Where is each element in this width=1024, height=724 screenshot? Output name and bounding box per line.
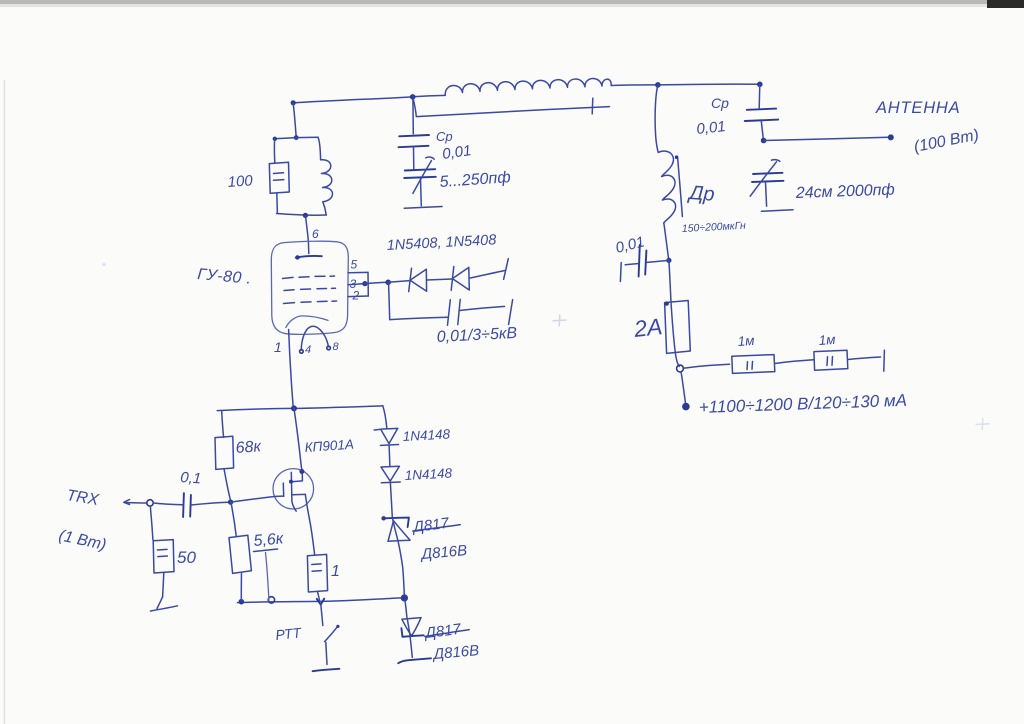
wire to antenna terminal xyxy=(764,137,889,140)
resistor R 100 body xyxy=(269,162,289,193)
wire varcap down xyxy=(420,179,423,206)
variable capacitor arrow xyxy=(413,157,434,193)
wire top-left horizontal xyxy=(293,97,413,103)
terminal bar snubber xyxy=(509,300,513,325)
capacitor Cp2 top plate xyxy=(747,109,776,110)
svg-text:5,6к: 5,6к xyxy=(253,530,286,550)
capacitor snubber right plate xyxy=(458,299,460,324)
terminal bar zener bottom xyxy=(398,658,431,663)
svg-text:Др: Др xyxy=(687,182,716,206)
wire to choke xyxy=(655,85,658,152)
wire snubber branch down xyxy=(389,283,390,320)
svg-text:Cр: Cр xyxy=(436,129,453,144)
node Cp top xyxy=(757,82,763,88)
strike line D817 lower xyxy=(425,630,469,637)
wire 68k to rail xyxy=(222,411,224,438)
PTT ground bar xyxy=(313,669,340,671)
wire R1M2 to terminal xyxy=(848,357,881,360)
fuse F1 body xyxy=(665,301,691,354)
wire Cp2 to antenna node xyxy=(761,121,763,140)
wire 50 to ground xyxy=(163,573,164,597)
wire D2 to terminal xyxy=(469,271,504,279)
diode D1 body xyxy=(410,269,427,291)
svg-text:68к: 68к xyxy=(235,438,263,457)
inductor L1 loops xyxy=(321,160,333,202)
wire cathode down xyxy=(289,330,294,409)
diode D3 cathode bar xyxy=(380,444,398,447)
dark scanner corner mark top-right xyxy=(987,0,1024,8)
wire junction to coil xyxy=(413,95,446,96)
resistor R 100 inner marks xyxy=(274,173,284,180)
node choke bottom xyxy=(666,258,671,263)
svg-text:4: 4 xyxy=(305,344,311,356)
wire down to suppressor block xyxy=(293,103,296,137)
node suppressor top-left xyxy=(273,137,277,141)
inductor L1 bottom lead xyxy=(323,202,326,215)
PTT switch lever xyxy=(325,626,338,641)
svg-text:24см 2000пф: 24см 2000пф xyxy=(795,182,896,202)
node fuse top xyxy=(665,301,669,305)
node grid box xyxy=(362,281,367,286)
fuse through wire xyxy=(669,260,679,366)
zener Z1 cathode bar with hook xyxy=(383,518,409,527)
svg-text:100: 100 xyxy=(227,172,254,191)
variable capacitor bottom plate xyxy=(404,177,436,178)
faint scan artifact plus center xyxy=(553,315,567,327)
tube anode bar xyxy=(296,256,322,258)
faint speck left of tube xyxy=(103,263,106,266)
svg-text:5: 5 xyxy=(351,258,358,272)
wire 50 down xyxy=(150,506,153,540)
capacitor Cp1 bottom plate xyxy=(399,146,429,147)
capacitor 0,1 right plate xyxy=(189,495,192,517)
open node rail xyxy=(268,597,274,603)
coil tap line xyxy=(413,98,610,117)
mosfet drain hook xyxy=(292,471,303,482)
mosfet source lead xyxy=(305,494,309,518)
terminal bar after D2 xyxy=(504,259,509,280)
wire D1 to D2 xyxy=(427,279,452,280)
svg-text:Cр: Cр xyxy=(711,95,729,111)
antenna terminal dot xyxy=(888,134,894,140)
diode D2 1N5408 cathode bar xyxy=(451,267,454,291)
wire D3 to D4 xyxy=(388,446,391,467)
resistor R 50 body xyxy=(153,540,174,573)
svg-text:1: 1 xyxy=(274,339,282,355)
bottom rail xyxy=(238,598,405,603)
node antenna branch xyxy=(761,138,767,144)
resistor R 50 marks xyxy=(158,549,168,556)
diode D3 1N4148 body xyxy=(381,428,398,443)
wire suppressor bottom edge xyxy=(277,214,327,216)
node 5k6 bottom xyxy=(239,599,245,605)
antenna variable capacitor top plate xyxy=(753,173,783,174)
antenna variable capacitor bottom plate xyxy=(752,181,784,182)
input terminal xyxy=(124,500,130,505)
tube GU-80 envelope xyxy=(271,241,348,334)
wire PTT down xyxy=(321,605,323,626)
node zener Z1 bar blob xyxy=(381,516,385,520)
node rail cathode xyxy=(291,405,297,411)
svg-text:1N4148: 1N4148 xyxy=(404,466,453,483)
resistor R 5,6k body xyxy=(229,535,251,573)
top rail bottom section xyxy=(217,406,383,411)
svg-text:6: 6 xyxy=(312,227,319,241)
resistor R 100 left branch lead xyxy=(273,139,275,163)
node top-left junction xyxy=(291,100,296,105)
tube pin 8 xyxy=(327,346,331,350)
zener Z1 through wire xyxy=(392,518,404,595)
resistor R 1M second marks xyxy=(827,357,833,366)
open node input junction xyxy=(147,500,153,506)
antenna varcap arrow xyxy=(750,160,780,197)
mosfet channel bar xyxy=(291,472,296,511)
resistor R source marks xyxy=(312,564,322,571)
terminal bar bypass cap xyxy=(619,263,622,282)
tube grid dashes row 2 xyxy=(284,288,336,290)
wire R1M to R1M xyxy=(775,360,814,364)
grid pin box bottom line xyxy=(348,295,368,298)
diode D1 1N5408 cathode bar xyxy=(409,268,412,291)
ground input xyxy=(151,597,178,611)
wire snubber branch right xyxy=(390,317,448,319)
wire R1 to rail arrow xyxy=(318,592,320,600)
terminal bar HT xyxy=(883,350,886,371)
choke core top dot xyxy=(675,155,679,159)
wire gate junction up to 68k xyxy=(224,469,230,500)
wire suppressor top edge xyxy=(275,137,318,139)
page left edge line xyxy=(4,80,6,724)
wire 5k6 to rail xyxy=(240,573,242,601)
wire fuse node to R 1M xyxy=(683,364,729,368)
wire gate junction to 5k6 xyxy=(231,504,236,536)
wire varcap2 down xyxy=(766,183,767,207)
node drain blob xyxy=(299,469,304,474)
wire Cp2 down xyxy=(758,84,761,108)
resistor R 1M second body xyxy=(814,350,848,370)
svg-text:8: 8 xyxy=(333,341,340,353)
svg-text:0,1: 0,1 xyxy=(180,469,202,487)
label 5,6k underline xyxy=(254,549,278,552)
node gate junction xyxy=(228,499,233,504)
zener Z1 body xyxy=(388,521,410,542)
bypass capacitor left plate xyxy=(639,245,640,277)
tube grid dashes row 1 xyxy=(283,276,335,279)
stray line 5,6k to rail xyxy=(266,553,269,601)
bypass capacitor right plate xyxy=(645,251,646,275)
tube filament arc xyxy=(301,326,328,350)
zener Z2 cathode bar with hook xyxy=(401,628,423,637)
wire junction to cap 0,1 xyxy=(153,503,182,505)
zener Z2 body xyxy=(402,618,421,636)
capacitor Cp2 bottom plate xyxy=(745,120,778,121)
node channel dot xyxy=(289,480,293,484)
capacitor Cp1 top plate xyxy=(399,135,429,136)
PTT wire below xyxy=(326,642,327,664)
inductor L2 tank coil xyxy=(445,78,611,95)
choke Dr core line xyxy=(678,159,683,217)
diode D4 cathode bar xyxy=(381,481,400,484)
bypass cap lead xyxy=(625,264,639,265)
svg-text:1: 1 xyxy=(331,563,340,580)
wire rail right corner down xyxy=(383,406,387,428)
svg-text:1N4148: 1N4148 xyxy=(402,427,451,444)
terminal bar varcap2 xyxy=(761,210,793,212)
svg-text:1м: 1м xyxy=(737,333,755,349)
coil tap tick xyxy=(591,98,594,114)
strike line D817 xyxy=(413,525,460,531)
tube grid dashes row 3 xyxy=(284,301,337,304)
wire grid junction to D1 xyxy=(388,281,410,283)
tube dome arc xyxy=(286,316,328,328)
svg-text:2: 2 xyxy=(352,289,360,303)
wire between caps xyxy=(413,147,415,170)
terminal bar varcap bottom xyxy=(404,207,442,209)
mosfet gate bar xyxy=(282,483,284,496)
wire to bypass cap xyxy=(647,260,669,262)
wire drain down xyxy=(294,408,302,470)
node grid junction xyxy=(385,280,391,286)
resistor R 1M first body xyxy=(732,355,775,374)
capacitor snubber left plate xyxy=(448,300,451,325)
svg-text:АНТЕННА: АНТЕННА xyxy=(875,99,960,117)
rail arrow mark xyxy=(317,599,324,605)
diode D2 body xyxy=(452,267,469,290)
svg-text:1м: 1м xyxy=(818,332,836,348)
node right of coil xyxy=(655,82,661,88)
resistor R source 1 body xyxy=(307,554,327,592)
node rail right big xyxy=(401,594,408,601)
diode D4 1N4148 body xyxy=(381,466,399,481)
wire source to R1 xyxy=(309,519,314,555)
choke Dr coil loops xyxy=(658,151,675,223)
wire snubber to terminal xyxy=(460,306,505,310)
wire cap to gate junction xyxy=(191,502,228,505)
wire Cp1 chain down xyxy=(412,98,414,134)
svg-text:2А: 2А xyxy=(632,313,664,342)
wire gate lead xyxy=(231,496,284,502)
zener Z2 through wire xyxy=(407,617,412,657)
node suppressor bottom junction xyxy=(303,213,308,218)
resistor R 1M first marks xyxy=(747,362,753,370)
wire to plus terminal xyxy=(681,372,686,404)
wire grid to diodes xyxy=(365,282,388,283)
resistor R 100 bottom lead xyxy=(276,193,279,213)
top scan shadow band xyxy=(0,0,1024,4)
mosfet Q1 circle xyxy=(273,469,314,509)
mosfet source stroke xyxy=(292,493,305,495)
wire choke to fuse junction xyxy=(664,223,669,260)
node suppressor top junction xyxy=(294,135,299,140)
node coil junction xyxy=(410,94,416,100)
grid pin box top line xyxy=(348,271,368,273)
tube pin 4 xyxy=(300,350,304,354)
capacitor 0,1 left plate xyxy=(182,493,185,517)
open node below fuse xyxy=(677,365,684,372)
grid mid wire xyxy=(348,284,365,285)
svg-text:50: 50 xyxy=(177,548,196,567)
wire anode pin 6 xyxy=(305,216,308,254)
wire input to junction xyxy=(125,502,147,505)
wire coil to right junction xyxy=(611,84,658,87)
faint scan artifact plus right xyxy=(976,418,991,430)
inductor L1 top lead xyxy=(318,137,321,160)
svg-text:0,01: 0,01 xyxy=(696,118,727,138)
wire to Cp junction xyxy=(658,83,760,86)
variable capacitor top plate xyxy=(405,169,435,170)
PTT lever top dot xyxy=(336,625,339,628)
plus terminal dot xyxy=(682,403,690,411)
diode D3 tick xyxy=(374,428,381,431)
svg-text:РТТ: РТТ xyxy=(275,624,304,643)
resistor R 68k body xyxy=(215,436,234,469)
wire big node down xyxy=(405,600,407,617)
wire D4 to zener xyxy=(390,483,392,517)
grid pin box right edge xyxy=(367,272,369,296)
